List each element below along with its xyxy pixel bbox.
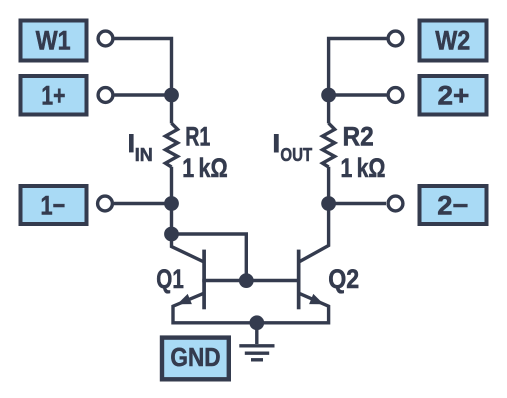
wire Q1 collector from node C	[172, 234, 205, 262]
junction node A (W1/1+/R1)	[164, 88, 179, 103]
terminal circle 1+	[98, 88, 113, 103]
svg-text:R2: R2	[343, 121, 374, 151]
svg-text:GND: GND	[170, 342, 220, 372]
wire 2+ terminal to node D	[329, 93, 387, 96]
terminal box W2	[420, 21, 487, 61]
svg-text:OUT: OUT	[280, 144, 312, 165]
svg-text:R1: R1	[185, 121, 210, 151]
terminal circle W2	[388, 31, 403, 46]
svg-text:Q2: Q2	[328, 264, 359, 294]
svg-text:2−: 2−	[437, 191, 468, 221]
junction node E (2-)	[321, 196, 336, 211]
svg-text:1−: 1−	[41, 191, 66, 221]
terminal box 2+	[420, 76, 487, 115]
wire node D to R2 top	[327, 95, 330, 123]
ground	[239, 323, 274, 360]
junction node D (W2/2+/R2)	[321, 88, 336, 103]
wire 2- terminal to node E	[329, 202, 386, 205]
wire base Q1 to base node to base Q2	[202, 279, 300, 282]
wire R2 bottom through node E to Q2 collector	[299, 167, 329, 262]
terminal circle W1	[98, 31, 113, 46]
terminal box W1	[21, 21, 87, 61]
svg-text:W2: W2	[435, 26, 470, 56]
wire W1 terminal to corner to node A	[115, 39, 172, 96]
svg-text:IN: IN	[135, 144, 153, 165]
wire 1- terminal to node B	[114, 202, 172, 205]
svg-text:2+: 2+	[438, 81, 470, 111]
wire W2 terminal to corner to node D	[329, 39, 387, 96]
terminal box 2-	[420, 186, 487, 224]
wire node C to base node (diode connection)	[172, 234, 247, 281]
label I_OUT	[274, 134, 313, 165]
label I_IN	[129, 134, 153, 165]
terminal box 1+	[21, 76, 87, 115]
terminal circle 2+	[388, 88, 403, 103]
wire node A to R1 top	[170, 95, 173, 123]
svg-text:1 kΩ: 1 kΩ	[182, 153, 227, 183]
svg-text:W1: W1	[36, 26, 71, 56]
svg-text:1+: 1+	[41, 81, 65, 111]
svg-text:1 kΩ: 1 kΩ	[341, 153, 386, 183]
resistor R2 zigzag	[323, 123, 335, 167]
terminal circle 1-	[98, 196, 113, 211]
transistor Q2 emitter arrow	[309, 294, 324, 304]
junction base node	[239, 273, 254, 288]
junction node C (Q1 collector tap)	[164, 227, 179, 242]
wire Q1 emitter to ground bus to Q2 emitter	[173, 293, 329, 323]
junction ground node	[249, 315, 264, 330]
transistor Q1 emitter arrow	[177, 294, 192, 304]
transistor Q1 base bar	[202, 250, 206, 310]
junction node B (1-)	[164, 196, 179, 211]
terminal box GND	[162, 338, 229, 380]
svg-text:Q1: Q1	[156, 264, 184, 294]
resistor R1 zigzag	[165, 123, 177, 167]
wire R1 bottom through node B to node C	[170, 167, 173, 234]
wire 1+ terminal to node A	[115, 93, 172, 96]
terminal box 1-	[21, 186, 87, 224]
terminal circle 2-	[388, 196, 403, 211]
transistor Q2 base bar	[297, 250, 301, 310]
